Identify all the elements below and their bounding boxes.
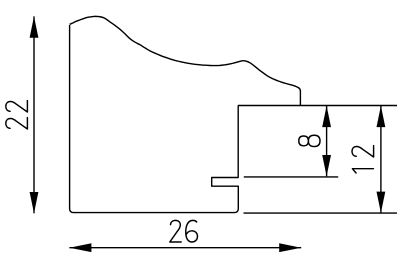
arrowhead dim22 bottom (30, 192, 39, 213)
arrowhead dim12 bottom (377, 192, 386, 213)
wire: rabbet shelf extension line for dim 8 (244, 176, 338, 178)
label "22" (rotated) (6, 118, 28, 129)
wire: ogee profile top curve (70, 16, 301, 105)
wire: rabbet top line / extension for dims 8 and 12 (238, 105, 397, 107)
label "26" (170, 220, 181, 242)
arrowhead dim26 left (69, 243, 91, 252)
arrowhead dim26 right (279, 243, 301, 252)
dimension 22 line (33, 16, 35, 213)
dimension 26 line (69, 247, 301, 249)
arrowhead dim8 bottom (322, 155, 331, 176)
wire: moulding body outline (left edge, bottom, right face with groove) (70, 25, 239, 213)
label "8" (rotated) (299, 135, 320, 146)
wire: bottom extension line for dim 12 (244, 212, 398, 214)
arrowhead dim12 top (377, 106, 386, 127)
arrowhead dim22 top (30, 16, 39, 37)
label "12" (rotated) (352, 169, 373, 173)
dimension 8 line (326, 106, 328, 177)
dimension 12 line (380, 106, 382, 213)
arrowhead dim8 top (322, 106, 331, 127)
